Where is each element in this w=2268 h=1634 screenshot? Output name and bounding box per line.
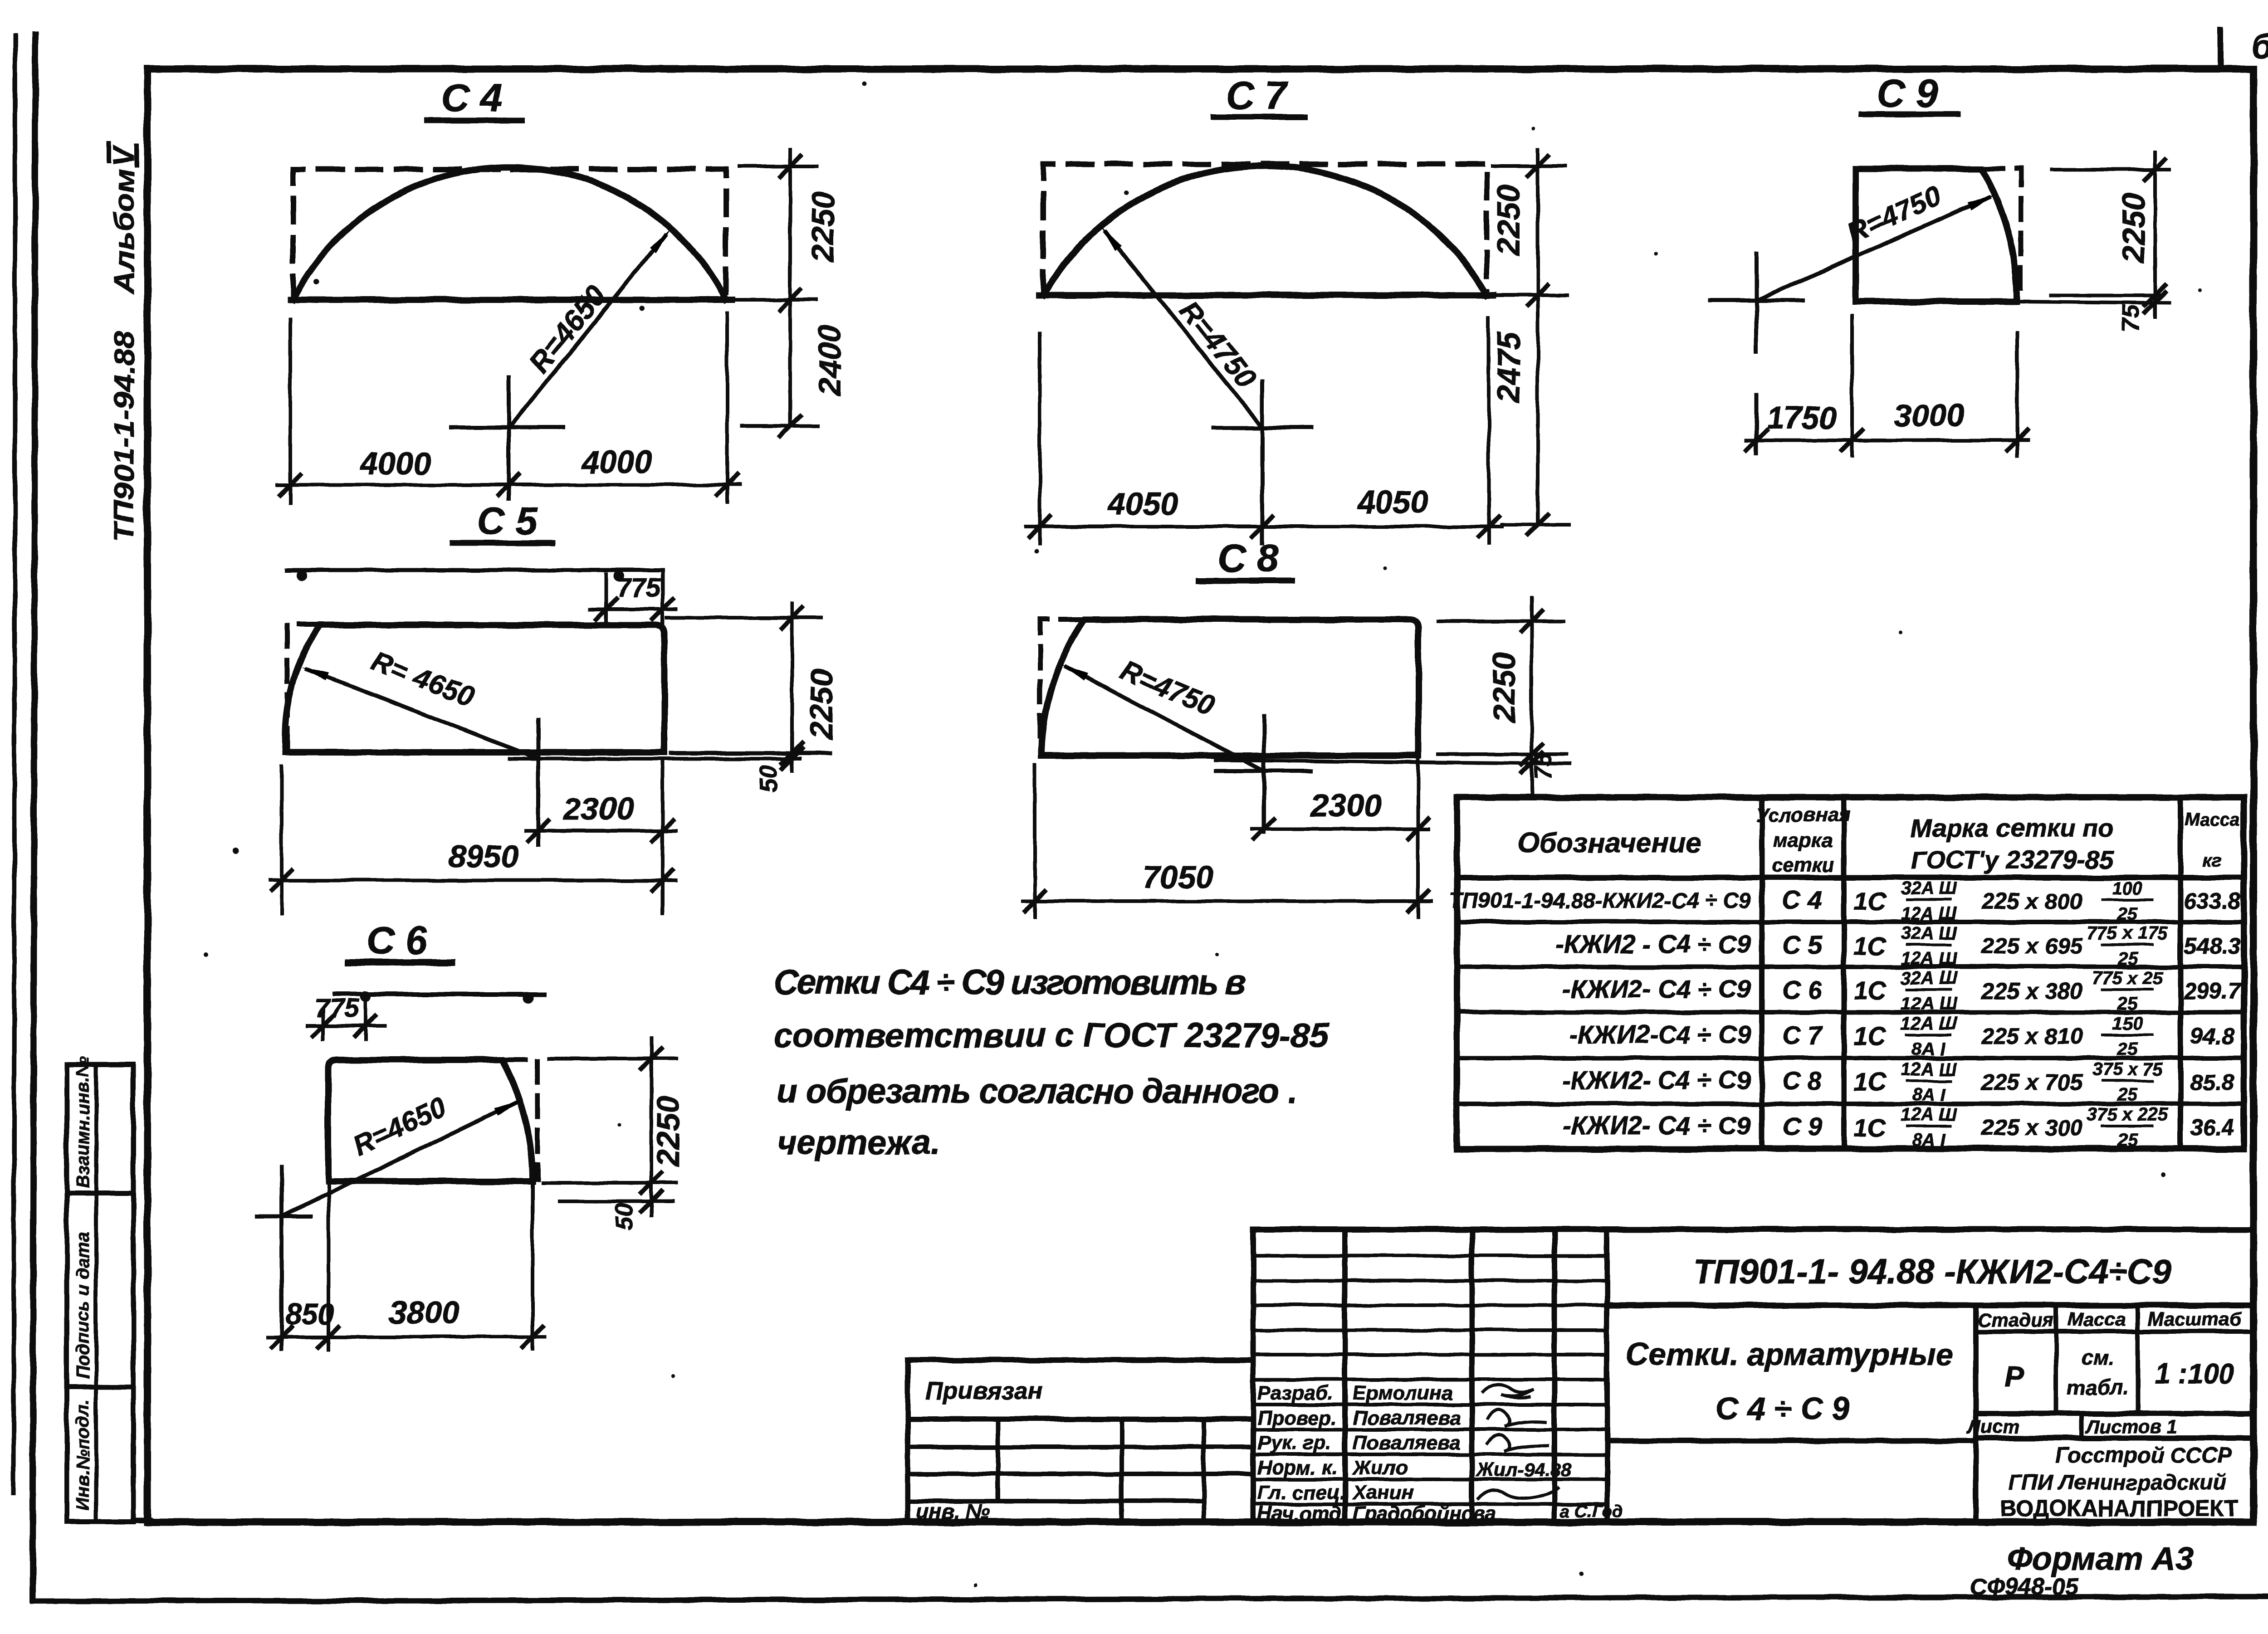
C8 dimension 2300 bbox=[1252, 827, 1429, 831]
svg-text:548.3: 548.3 bbox=[2184, 933, 2240, 959]
svg-text:С 8: С 8 bbox=[1782, 1067, 1822, 1095]
C9 dimension 2250 right bbox=[2052, 168, 2169, 171]
svg-text:75: 75 bbox=[2117, 304, 2145, 332]
C5 bottom edge extension right bbox=[671, 751, 830, 756]
page number 6 bbox=[2218, 30, 2224, 68]
svg-text:32А Ш: 32А Ш bbox=[1901, 968, 1957, 988]
svg-text:12А Ш: 12А Ш bbox=[1901, 994, 1957, 1014]
svg-text:299.7: 299.7 bbox=[2183, 978, 2241, 1004]
svg-text:-КЖИ2- С4 ÷ С9: -КЖИ2- С4 ÷ С9 bbox=[1562, 975, 1751, 1003]
svg-text:225 x 705: 225 x 705 bbox=[1981, 1069, 2083, 1095]
C7 dimension 4050+4050 bbox=[1038, 334, 1041, 543]
C6 arc center cross bbox=[256, 1215, 311, 1219]
svg-text:см.: см. bbox=[2082, 1346, 2114, 1370]
svg-text:12А Ш: 12А Ш bbox=[1901, 1014, 1957, 1034]
svg-text:4050: 4050 bbox=[1107, 486, 1178, 522]
mesh table frame bbox=[1457, 797, 2244, 1149]
svg-text:375 x 75: 375 x 75 bbox=[2092, 1059, 2163, 1079]
title block doc number cell divider bbox=[1607, 1302, 2252, 1308]
svg-text:С 7: С 7 bbox=[1782, 1021, 1823, 1049]
svg-text:50: 50 bbox=[755, 766, 782, 793]
svg-text:850: 850 bbox=[286, 1298, 334, 1331]
svg-text:8А I: 8А I bbox=[1912, 1085, 1945, 1105]
C5 arc center cross bbox=[509, 757, 800, 761]
C8 arc center cross bbox=[1216, 769, 1311, 773]
svg-text:2400: 2400 bbox=[812, 325, 847, 396]
C4 radius line R=4650 bbox=[512, 235, 665, 424]
svg-text:Инв.№подл.: Инв.№подл. bbox=[73, 1400, 93, 1510]
svg-text:1 :100: 1 :100 bbox=[2155, 1358, 2234, 1390]
svg-text:1С: 1С bbox=[1853, 932, 1887, 960]
C9 dimension 75 right bbox=[1964, 301, 2169, 303]
stage/mass/scale block bbox=[1973, 1305, 1979, 1522]
svg-text:и обрезать согласно данного .: и обрезать согласно данного . bbox=[777, 1072, 1297, 1111]
svg-text:Нач.отд.: Нач.отд. bbox=[1257, 1502, 1347, 1525]
C5 top reference line with dots bbox=[287, 568, 663, 572]
svg-text:Привязан: Привязан bbox=[925, 1377, 1043, 1405]
svg-text:С 4 ÷ С 9: С 4 ÷ С 9 bbox=[1716, 1391, 1849, 1426]
C6 top reference line with dots bbox=[334, 992, 544, 996]
svg-text:3000: 3000 bbox=[1894, 398, 1965, 433]
C7 mesh arc edge bbox=[1043, 166, 1487, 295]
svg-text:225 x 695: 225 x 695 bbox=[1981, 933, 2083, 959]
svg-text:Сетки С4 ÷ С9 изготовить в: Сетки С4 ÷ С9 изготовить в bbox=[773, 963, 1246, 1002]
svg-text:25: 25 bbox=[2117, 904, 2138, 924]
C8 bottom edge extension right bbox=[1216, 760, 1569, 764]
svg-text:2300: 2300 bbox=[562, 791, 634, 827]
svg-text:С 4: С 4 bbox=[1782, 886, 1822, 914]
C7 arc center cross bbox=[1213, 426, 1312, 430]
C8 radius line R=4750 bbox=[1066, 667, 1264, 771]
C5 dimension 2250 right bbox=[667, 616, 821, 619]
svg-text:1С: 1С bbox=[1853, 887, 1887, 915]
C4 arc center cross bbox=[451, 425, 563, 429]
svg-text:3800: 3800 bbox=[389, 1295, 459, 1330]
svg-text:25: 25 bbox=[2117, 949, 2138, 969]
C6 dimension 850+3800 bbox=[327, 1181, 330, 1349]
C7 dashed blank rectangle bbox=[1043, 164, 1487, 295]
svg-text:2250: 2250 bbox=[805, 191, 841, 263]
C8 mesh outline bbox=[1041, 619, 1418, 756]
svg-text:12А Ш: 12А Ш bbox=[1901, 1059, 1957, 1079]
svg-text:табл.: табл. bbox=[2067, 1375, 2129, 1399]
svg-text:32А Ш: 32А Ш bbox=[1901, 878, 1957, 898]
svg-text:225 x 810: 225 x 810 bbox=[1981, 1024, 2083, 1049]
left stamp boxes bbox=[67, 1064, 133, 1522]
svg-text:375 x 225: 375 x 225 bbox=[2087, 1105, 2168, 1125]
svg-text:Масштаб: Масштаб bbox=[2148, 1308, 2242, 1330]
svg-text:Провер.: Провер. bbox=[1257, 1407, 1336, 1429]
svg-text:Лист: Лист bbox=[1966, 1416, 2019, 1437]
C4 mesh arc edge bbox=[293, 167, 726, 300]
svg-text:Жил-94.88: Жил-94.88 bbox=[1476, 1459, 1572, 1480]
svg-text:С 5: С 5 bbox=[1782, 931, 1822, 959]
svg-text:8А I: 8А I bbox=[1912, 1130, 1945, 1150]
svg-text:ГПИ Ленинградский: ГПИ Ленинградский bbox=[2009, 1471, 2226, 1495]
svg-text:225 x 800: 225 x 800 bbox=[1981, 888, 2083, 914]
svg-text:12А Ш: 12А Ш bbox=[1901, 949, 1957, 969]
outer left thin line bbox=[14, 35, 15, 1493]
svg-text:Р: Р bbox=[2004, 1361, 2024, 1393]
title block verticals bbox=[1251, 1229, 1256, 1522]
C4 mesh chord bottom edge bbox=[290, 297, 732, 303]
C9 arc center cross bbox=[1710, 298, 1803, 302]
svg-text:С 8: С 8 bbox=[1218, 537, 1279, 580]
svg-text:Градобойнова: Градобойнова bbox=[1353, 1502, 1496, 1525]
C6 dimension 50 right bbox=[559, 1200, 673, 1203]
svg-text:С 5: С 5 bbox=[477, 499, 538, 543]
svg-text:36.4: 36.4 bbox=[2190, 1115, 2234, 1140]
svg-text:100: 100 bbox=[2112, 878, 2143, 898]
svg-text:кг: кг bbox=[2203, 850, 2222, 870]
svg-text:Марка сетки по: Марка сетки по bbox=[1911, 814, 2113, 842]
svg-text:R=4750: R=4750 bbox=[1173, 294, 1263, 395]
C5 dimension 2300 bbox=[526, 829, 676, 833]
C8 dimension 2250 right bbox=[1438, 619, 1564, 623]
svg-text:Обозначение: Обозначение bbox=[1517, 828, 1701, 859]
C5 dimension 50 right bbox=[782, 749, 802, 769]
svg-text:ТП901-1-94.88: ТП901-1-94.88 bbox=[109, 331, 140, 542]
C7 dimension 2475 right bbox=[1501, 523, 1569, 527]
svg-text:2250: 2250 bbox=[1486, 652, 1522, 723]
svg-text:ВОДОКАНАЛПРОЕКТ: ВОДОКАНАЛПРОЕКТ bbox=[2000, 1496, 2238, 1521]
svg-text:Ханин: Ханин bbox=[1351, 1482, 1413, 1504]
svg-text:1С: 1С bbox=[1853, 976, 1887, 1005]
svg-text:633.8: 633.8 bbox=[2184, 888, 2240, 914]
svg-text:-КЖИ2-С4 ÷ С9: -КЖИ2-С4 ÷ С9 bbox=[1569, 1020, 1751, 1049]
svg-text:1750: 1750 bbox=[1766, 400, 1837, 435]
svg-text:Поваляева: Поваляева bbox=[1353, 1432, 1461, 1454]
privyazan annex box bbox=[908, 1360, 1253, 1522]
signatures squiggles bbox=[1483, 1385, 1533, 1398]
svg-text:25: 25 bbox=[2117, 1130, 2138, 1150]
svg-text:Листов 1: Листов 1 bbox=[2085, 1416, 2178, 1437]
C6 dimension 2250 right bbox=[549, 1057, 676, 1060]
C5 mesh outline bbox=[285, 625, 665, 752]
svg-text:94.8: 94.8 bbox=[2190, 1024, 2234, 1049]
svg-text:R=4750: R=4750 bbox=[1116, 655, 1219, 722]
C7 dimension 2250 right bbox=[1492, 164, 1565, 168]
svg-text:Сетки. арматурные: Сетки. арматурные bbox=[1625, 1336, 1954, 1372]
C4 dimension 2400 right bbox=[743, 424, 818, 428]
svg-text:-КЖИ2 - С4 ÷ С9: -КЖИ2 - С4 ÷ С9 bbox=[1555, 930, 1751, 958]
svg-text:Госстрой СССР: Госстрой СССР bbox=[2055, 1444, 2232, 1468]
C7 radius line R=4750 bbox=[1105, 232, 1262, 428]
svg-text:-КЖИ2- С4 ÷ С9: -КЖИ2- С4 ÷ С9 bbox=[1562, 1066, 1751, 1094]
svg-text:1С: 1С bbox=[1853, 1113, 1887, 1141]
svg-text:Ермолина: Ермолина bbox=[1353, 1382, 1452, 1404]
svg-text:С 4: С 4 bbox=[441, 76, 502, 120]
svg-text:2250: 2250 bbox=[2116, 192, 2151, 264]
outer bottom line bbox=[33, 1596, 2268, 1601]
C4 dimension 2250 right bbox=[739, 164, 816, 168]
svg-text:С 6: С 6 bbox=[1782, 976, 1822, 1004]
svg-text:Жило: Жило bbox=[1352, 1457, 1408, 1479]
svg-text:4000: 4000 bbox=[359, 446, 431, 481]
svg-text:2475: 2475 bbox=[1491, 332, 1526, 404]
C9 mesh outline bbox=[1856, 169, 2017, 302]
svg-text:Норм. к.: Норм. к. bbox=[1257, 1457, 1337, 1479]
C9 dashed blank corner bbox=[1982, 169, 2021, 295]
svg-text:1С: 1С bbox=[1853, 1022, 1887, 1050]
svg-text:сетки: сетки bbox=[1772, 854, 1834, 876]
C4 dimension 4000+4000 bbox=[288, 319, 292, 502]
C6 dashed blank corner bbox=[504, 1060, 538, 1179]
svg-text:775 x 175: 775 x 175 bbox=[2087, 923, 2168, 943]
svg-text:R=4650: R=4650 bbox=[523, 279, 612, 380]
svg-text:ТП901-1-94.88-КЖИ2-С4 ÷ С9: ТП901-1-94.88-КЖИ2-С4 ÷ С9 bbox=[1449, 889, 1751, 913]
svg-text:50: 50 bbox=[611, 1203, 638, 1230]
svg-text:Условная: Условная bbox=[1755, 804, 1850, 826]
svg-text:С 9: С 9 bbox=[1782, 1112, 1822, 1141]
svg-text:225 x 380: 225 x 380 bbox=[1981, 978, 2083, 1004]
C6 radius line R=4650 bbox=[282, 1102, 517, 1216]
svg-text:ТП901-1- 94.88 -КЖИ2-С4÷С9: ТП901-1- 94.88 -КЖИ2-С4÷С9 bbox=[1693, 1253, 2171, 1291]
svg-text:2250: 2250 bbox=[1491, 185, 1526, 256]
svg-text:Поваляева: Поваляева bbox=[1353, 1407, 1461, 1429]
svg-text:Гл. спец.: Гл. спец. bbox=[1257, 1482, 1345, 1504]
svg-text:32А Ш: 32А Ш bbox=[1901, 923, 1957, 943]
svg-text:25: 25 bbox=[2117, 1039, 2138, 1059]
svg-text:Подпись и дата: Подпись и дата bbox=[73, 1232, 93, 1379]
title block small rows bbox=[1253, 1254, 1607, 1258]
svg-text:Стадия: Стадия bbox=[1978, 1309, 2053, 1331]
C6 mesh outline bbox=[328, 1060, 533, 1181]
svg-text:2300: 2300 bbox=[1310, 788, 1382, 823]
title block top edge bbox=[1253, 1227, 2252, 1233]
C8 dimension 75 right bbox=[1522, 753, 1542, 773]
svg-text:2250: 2250 bbox=[650, 1096, 686, 1167]
svg-text:ГОСТ'у 23279-85: ГОСТ'у 23279-85 bbox=[1911, 845, 2114, 874]
svg-text:Взаимн.инв.№: Взаимн.инв.№ bbox=[73, 1056, 93, 1188]
svg-text:Рук. гр.: Рук. гр. bbox=[1257, 1432, 1331, 1454]
C4 dashed blank rectangle bbox=[293, 169, 726, 300]
svg-text:а С.Год: а С.Год bbox=[1560, 1502, 1623, 1521]
svg-text:12А Ш: 12А Ш bbox=[1901, 1105, 1957, 1125]
C8 dashed blank corner bbox=[1040, 619, 1082, 746]
svg-text:С 6: С 6 bbox=[367, 919, 428, 962]
C8 dimension 7050 bbox=[1033, 765, 1037, 917]
svg-text:8950: 8950 bbox=[448, 839, 519, 874]
C5 radius line R=4650 bbox=[307, 669, 538, 759]
svg-text:775 x 25: 775 x 25 bbox=[2092, 968, 2163, 988]
svg-text:75: 75 bbox=[1530, 752, 1557, 780]
svg-text:775: 775 bbox=[617, 573, 661, 603]
svg-text:150: 150 bbox=[2112, 1014, 2143, 1034]
svg-text:С 9: С 9 bbox=[1877, 72, 1938, 115]
C5 dashed blank corner bbox=[287, 624, 320, 751]
svg-text:1С: 1С bbox=[1853, 1068, 1887, 1096]
svg-text:4050: 4050 bbox=[1356, 484, 1428, 520]
C7 mesh chord bottom edge bbox=[1039, 292, 1493, 298]
svg-text:Масса: Масса bbox=[2185, 810, 2240, 829]
svg-text:марка: марка bbox=[1773, 829, 1833, 851]
svg-text:25: 25 bbox=[2117, 1085, 2138, 1105]
svg-text:225 x 300: 225 x 300 bbox=[1981, 1115, 2083, 1140]
svg-text:7050: 7050 bbox=[1143, 859, 1213, 895]
svg-text:R= 4650: R= 4650 bbox=[367, 645, 479, 713]
C5 dimension 8950 bbox=[280, 766, 283, 913]
svg-text:СФ948-05: СФ948-05 bbox=[1970, 1574, 2079, 1600]
svg-text:С 7: С 7 bbox=[1226, 74, 1289, 117]
svg-text:б: б bbox=[2251, 26, 2268, 66]
svg-text:2250: 2250 bbox=[804, 669, 839, 741]
C9 dimension 1750+3000 bbox=[1850, 316, 1854, 456]
C9 radius line R=4750 bbox=[1756, 197, 1989, 300]
svg-text:Формат А3: Формат А3 bbox=[2007, 1541, 2194, 1577]
svg-text:инв. №: инв. № bbox=[916, 1499, 990, 1523]
svg-text:-КЖИ2- С4 ÷ С9: -КЖИ2- С4 ÷ С9 bbox=[1562, 1111, 1751, 1140]
svg-text:Альбом: Альбом bbox=[109, 169, 140, 295]
svg-text:85.8: 85.8 bbox=[2190, 1069, 2234, 1095]
svg-text:R=4650: R=4650 bbox=[348, 1091, 451, 1162]
svg-text:4000: 4000 bbox=[581, 444, 652, 479]
svg-text:чертежа.: чертежа. bbox=[777, 1123, 940, 1162]
svg-text:12А Ш: 12А Ш bbox=[1901, 904, 1957, 924]
svg-text:соответствии с ГОСТ 23279-85: соответствии с ГОСТ 23279-85 bbox=[773, 1016, 1330, 1055]
svg-text:Масса: Масса bbox=[2068, 1308, 2126, 1330]
outer left thick line bbox=[33, 34, 35, 1600]
svg-text:25: 25 bbox=[2117, 994, 2138, 1014]
svg-text:Разраб.: Разраб. bbox=[1257, 1382, 1333, 1404]
svg-text:8А I: 8А I bbox=[1912, 1039, 1945, 1059]
